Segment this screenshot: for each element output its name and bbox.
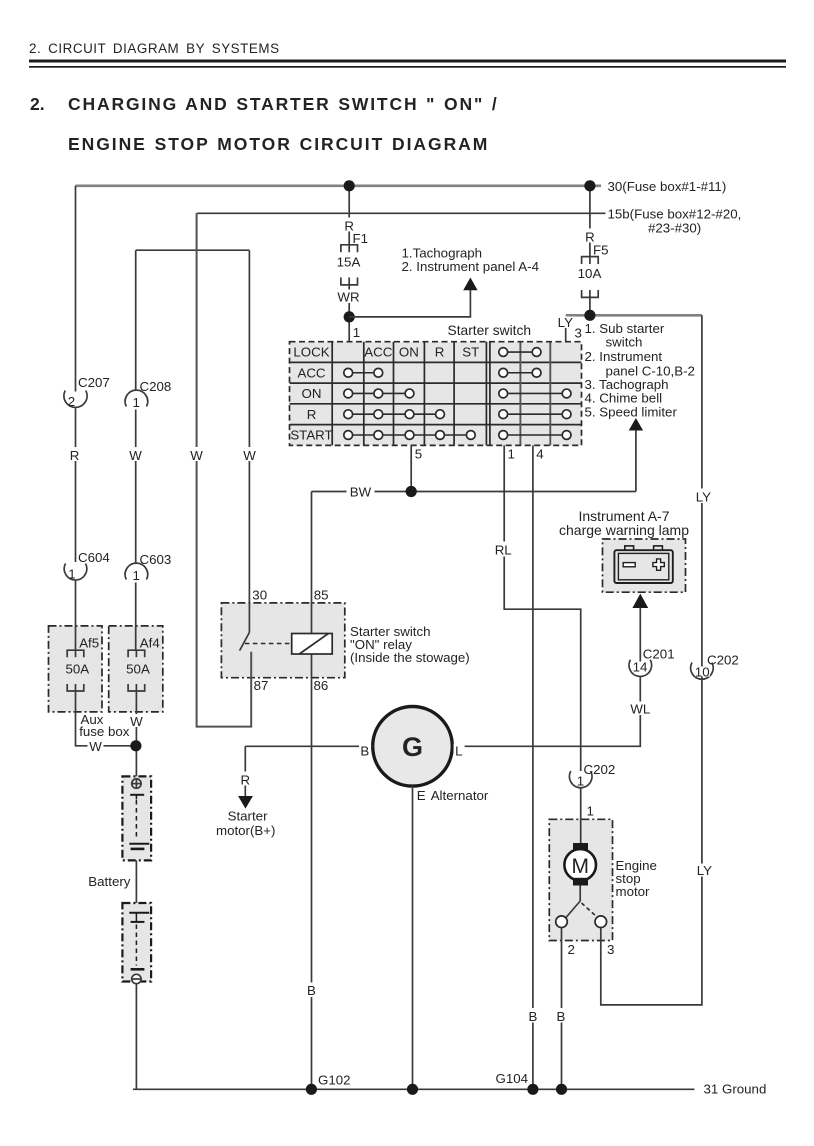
- wire label LY: [555, 315, 576, 330]
- ground node motor pin 2: [556, 1084, 567, 1095]
- motor contact 2: [556, 916, 568, 928]
- relay coil: [292, 634, 333, 655]
- svg-text:motor(B+): motor(B+): [216, 823, 275, 838]
- svg-text:#23-#30): #23-#30): [648, 221, 701, 236]
- svg-text:C202: C202: [584, 762, 616, 777]
- motor contact 3: [595, 916, 607, 928]
- right block contacts: [499, 348, 571, 440]
- svg-text:30: 30: [252, 588, 267, 603]
- svg-text:LY: LY: [558, 315, 573, 330]
- wire label BW: [347, 484, 375, 500]
- svg-text:50A: 50A: [126, 662, 150, 677]
- relay switch blade: [240, 632, 250, 650]
- svg-text:R: R: [307, 407, 317, 422]
- svg-text:4: 4: [536, 447, 543, 462]
- svg-text:ACC: ACC: [364, 345, 392, 360]
- svg-text:2: 2: [568, 942, 575, 957]
- battery 1 plus terminal: [132, 779, 141, 788]
- svg-text:14: 14: [633, 659, 648, 674]
- svg-text:2. Instrument: 2. Instrument: [585, 349, 663, 364]
- engine stop motor box: [549, 819, 612, 940]
- svg-text:(Inside the stowage): (Inside the stowage): [350, 650, 470, 665]
- svg-text:motor: motor: [616, 884, 651, 899]
- svg-text:ENGINE STOP MOTOR CIRCUIT DIAG: ENGINE STOP MOTOR CIRCUIT DIAGRAM: [68, 134, 489, 154]
- svg-text:2: 2: [68, 394, 75, 409]
- svg-text:5: 5: [415, 447, 422, 462]
- pin 5 wire below table: [410, 445, 412, 491]
- svg-text:C208: C208: [140, 379, 172, 394]
- connector C202 (LY): [691, 653, 739, 680]
- wire C202 to motor: [580, 788, 582, 844]
- wire W2 into aux fuse box: [135, 583, 137, 651]
- aux fuse box Af5: [49, 626, 103, 712]
- wire R main drop: [75, 186, 77, 392]
- svg-text:C202: C202: [707, 653, 739, 668]
- engine stop motor M: [564, 843, 596, 886]
- svg-text:B: B: [556, 1009, 565, 1024]
- svg-text:W: W: [89, 739, 102, 754]
- bus 15b (second horizontal): [197, 212, 606, 214]
- wire label R (F1 feed): [342, 218, 357, 234]
- relay box: [221, 603, 344, 678]
- wire Af5 output W: [76, 691, 136, 746]
- svg-text:Battery: Battery: [88, 874, 130, 889]
- arrow to chime bell: [629, 418, 643, 431]
- fuse Af4: [128, 650, 145, 691]
- aux fuse box Af4: [109, 626, 163, 712]
- node LY junction: [584, 310, 595, 321]
- relay link dashed: [245, 643, 291, 645]
- svg-text:WL: WL: [630, 702, 650, 717]
- starter switch right block column lines: [520, 342, 550, 446]
- svg-text:4. Chime bell: 4. Chime bell: [585, 390, 663, 405]
- svg-text:W: W: [243, 448, 256, 463]
- wire alternator E to ground: [412, 786, 414, 1089]
- pin 1 wire (RL): [504, 445, 581, 771]
- svg-text:10A: 10A: [578, 266, 602, 281]
- wire label W3: [189, 447, 205, 463]
- svg-text:R: R: [240, 773, 250, 788]
- connector C603: [125, 552, 171, 583]
- wire alternator B: [245, 745, 372, 747]
- wire label R (F5 feed): [583, 229, 598, 245]
- node battery junction: [130, 740, 141, 751]
- wire label W (Af4 out): [129, 714, 145, 729]
- svg-text:B: B: [360, 744, 369, 759]
- wire WR: [348, 285, 350, 342]
- ground bus: [133, 1088, 695, 1090]
- svg-text:G102: G102: [318, 1073, 351, 1088]
- svg-text:Starter switch: Starter switch: [448, 323, 532, 338]
- starter switch table fill: [290, 342, 582, 446]
- arrow to tachograph: [463, 278, 477, 291]
- wire to chime arrow: [635, 430, 637, 492]
- battery 2 box: [122, 903, 151, 982]
- wire R into aux fuse box: [75, 581, 77, 651]
- svg-text:R: R: [70, 448, 80, 463]
- svg-text:C207: C207: [78, 375, 110, 390]
- fuse F5: [582, 257, 599, 298]
- wire battery to ground: [135, 984, 137, 1090]
- wire motor pin 2 to ground: [561, 928, 563, 1090]
- wire label B (motor pin 2): [554, 1008, 568, 1024]
- svg-text:Alternator: Alternator: [431, 788, 489, 803]
- wire W4 drop from bus 3 to relay 30: [248, 250, 250, 632]
- wire Af4 output W: [135, 691, 137, 776]
- wire label W4: [242, 447, 258, 463]
- svg-text:fuse box: fuse box: [79, 724, 130, 739]
- svg-text:Af4: Af4: [140, 636, 160, 651]
- svg-text:B: B: [528, 1009, 537, 1024]
- svg-text:1: 1: [132, 395, 139, 410]
- svg-text:C604: C604: [78, 550, 110, 565]
- wire BW horizontal: [312, 491, 636, 493]
- node BW junction pin5: [406, 486, 417, 497]
- svg-text:E: E: [417, 788, 426, 803]
- table row labels: [290, 345, 332, 443]
- connector C604: [64, 550, 110, 582]
- svg-text:31 Ground: 31 Ground: [704, 1082, 767, 1097]
- svg-text:ON: ON: [399, 345, 419, 360]
- motor switch blade: [566, 901, 580, 918]
- connector C207: [64, 375, 110, 409]
- svg-text:RL: RL: [495, 543, 512, 558]
- wire label B (pin 4 drop): [526, 1008, 540, 1024]
- svg-text:1: 1: [132, 568, 139, 583]
- wire LY right side: [601, 315, 702, 1005]
- svg-text:START: START: [290, 428, 332, 443]
- terminal label L: [454, 744, 465, 759]
- svg-text:ON: ON: [302, 386, 322, 401]
- right block contact links: [503, 352, 566, 435]
- svg-text:3: 3: [575, 326, 582, 341]
- wire R below C207: [75, 408, 77, 562]
- wire W2 below C208: [135, 410, 137, 564]
- wire label LY (lower): [695, 863, 714, 878]
- battery 1 box: [122, 776, 151, 860]
- wire F5 drop: [589, 186, 591, 257]
- wire label R: [68, 447, 83, 463]
- wire between batteries: [135, 860, 137, 903]
- battery 2 minus terminal: [132, 974, 141, 983]
- starter switch table column lines: [332, 342, 490, 446]
- ground node G102: [306, 1084, 317, 1095]
- svg-text:5. Speed limiter: 5. Speed limiter: [585, 404, 678, 419]
- wire LY branch (gray): [566, 314, 702, 317]
- svg-text:C603: C603: [140, 552, 172, 567]
- svg-text:W: W: [129, 448, 142, 463]
- starter switch table row lines: [290, 362, 582, 424]
- svg-text:LY: LY: [696, 490, 711, 505]
- svg-text:M: M: [571, 855, 589, 878]
- instrument lamp box: [603, 539, 686, 592]
- svg-text:86: 86: [314, 678, 329, 693]
- svg-text:3: 3: [607, 942, 614, 957]
- wire to tachograph arrow: [349, 290, 470, 317]
- charge warning lamp symbol: [614, 546, 672, 583]
- svg-text:L: L: [455, 744, 462, 759]
- svg-text:1: 1: [587, 804, 594, 819]
- header double rule: [29, 60, 786, 63]
- left block contacts: [344, 368, 475, 439]
- wire label W2: [128, 447, 144, 463]
- svg-text:30(Fuse box#1-#11): 30(Fuse box#1-#11): [608, 179, 727, 194]
- bus 3 (third horizontal): [136, 249, 250, 251]
- wire label WL: [629, 702, 653, 717]
- fuse F1: [341, 245, 358, 285]
- svg-text:BW: BW: [350, 485, 372, 500]
- node junction on bus 30 at F1: [344, 180, 355, 191]
- terminal label B: [359, 744, 371, 759]
- wire label B (relay 86 drop): [305, 983, 319, 999]
- svg-text:15A: 15A: [337, 255, 361, 270]
- node junction on bus 30 at F5: [584, 180, 595, 191]
- motor switch blade alternate (dashed): [582, 903, 597, 917]
- wire W2 drop from bus 3: [135, 250, 137, 390]
- svg-text:WR: WR: [337, 290, 359, 305]
- svg-text:87: 87: [254, 678, 269, 693]
- wire label WR: [335, 290, 362, 305]
- svg-text:1: 1: [353, 325, 360, 340]
- svg-text:1: 1: [68, 567, 75, 582]
- connector C201: [629, 647, 675, 677]
- wire W3 drop from bus 15b to relay 87: [197, 213, 252, 726]
- starter switch table outer dashed border: [290, 342, 582, 446]
- bus 30 (top horizontal): [76, 185, 602, 188]
- svg-text:C201: C201: [643, 647, 675, 662]
- wire label RL: [492, 542, 515, 558]
- arrow to instrument lamp: [632, 594, 648, 608]
- alternator G: [373, 707, 453, 787]
- svg-text:15b(Fuse box#12-#20,: 15b(Fuse box#12-#20,: [608, 207, 742, 222]
- svg-text:G: G: [402, 732, 423, 762]
- svg-text:R: R: [435, 345, 445, 360]
- svg-text:switch: switch: [606, 335, 643, 350]
- wire F1 drop: [348, 186, 350, 245]
- svg-text:CHARGING AND STARTER SWITCH ": CHARGING AND STARTER SWITCH " ON" /: [68, 94, 499, 114]
- wire F5 to node: [589, 297, 591, 315]
- svg-text:LOCK: LOCK: [293, 345, 329, 360]
- svg-text:Starter: Starter: [228, 809, 268, 824]
- svg-text:2. CIRCUIT DIAGRAM BY SYSTEMS: 2. CIRCUIT DIAGRAM BY SYSTEMS: [29, 41, 280, 56]
- connector C208: [125, 379, 171, 410]
- svg-text:ST: ST: [462, 345, 479, 360]
- svg-text:50A: 50A: [65, 662, 89, 677]
- arrow to starter motor: [238, 796, 253, 809]
- svg-text:2. Instrument panel A-4: 2. Instrument panel A-4: [402, 259, 539, 274]
- wire motor to blade: [579, 886, 581, 902]
- battery 1 plates: [129, 795, 149, 849]
- svg-text:W: W: [190, 448, 203, 463]
- svg-text:1: 1: [508, 447, 515, 462]
- svg-text:F1: F1: [353, 231, 369, 246]
- wire label R (starter motor): [239, 772, 253, 788]
- node WR junction: [344, 311, 355, 322]
- wire label LY (upper): [694, 489, 713, 505]
- svg-text:LY: LY: [697, 863, 712, 878]
- ground node alternator E: [407, 1084, 418, 1095]
- wire arrow to C201: [639, 608, 641, 668]
- wire label W (Af5 out): [88, 739, 104, 754]
- svg-text:Af5: Af5: [79, 636, 99, 651]
- svg-text:B: B: [307, 983, 316, 998]
- table column header labels: [364, 345, 479, 360]
- wire WL: [452, 677, 640, 747]
- svg-text:85: 85: [314, 588, 329, 603]
- battery 2 plates: [129, 913, 149, 970]
- wire to starter motor: [244, 746, 246, 796]
- svg-text:ACC: ACC: [297, 365, 325, 380]
- left block contact links: [348, 373, 471, 435]
- fuse Af5: [67, 650, 84, 691]
- wire BW left drop to relay/ground: [311, 492, 313, 1090]
- wire pin 3 drop: [565, 317, 567, 342]
- connector C202 (engine stop motor feed): [569, 762, 615, 788]
- ground node G104: [527, 1084, 538, 1095]
- pin 4 wire (B): [532, 445, 534, 1089]
- svg-text:W: W: [130, 714, 143, 729]
- svg-text:charge warning lamp: charge warning lamp: [559, 522, 689, 538]
- svg-text:G104: G104: [496, 1071, 529, 1086]
- svg-text:2.: 2.: [30, 94, 45, 114]
- svg-text:F5: F5: [593, 243, 609, 258]
